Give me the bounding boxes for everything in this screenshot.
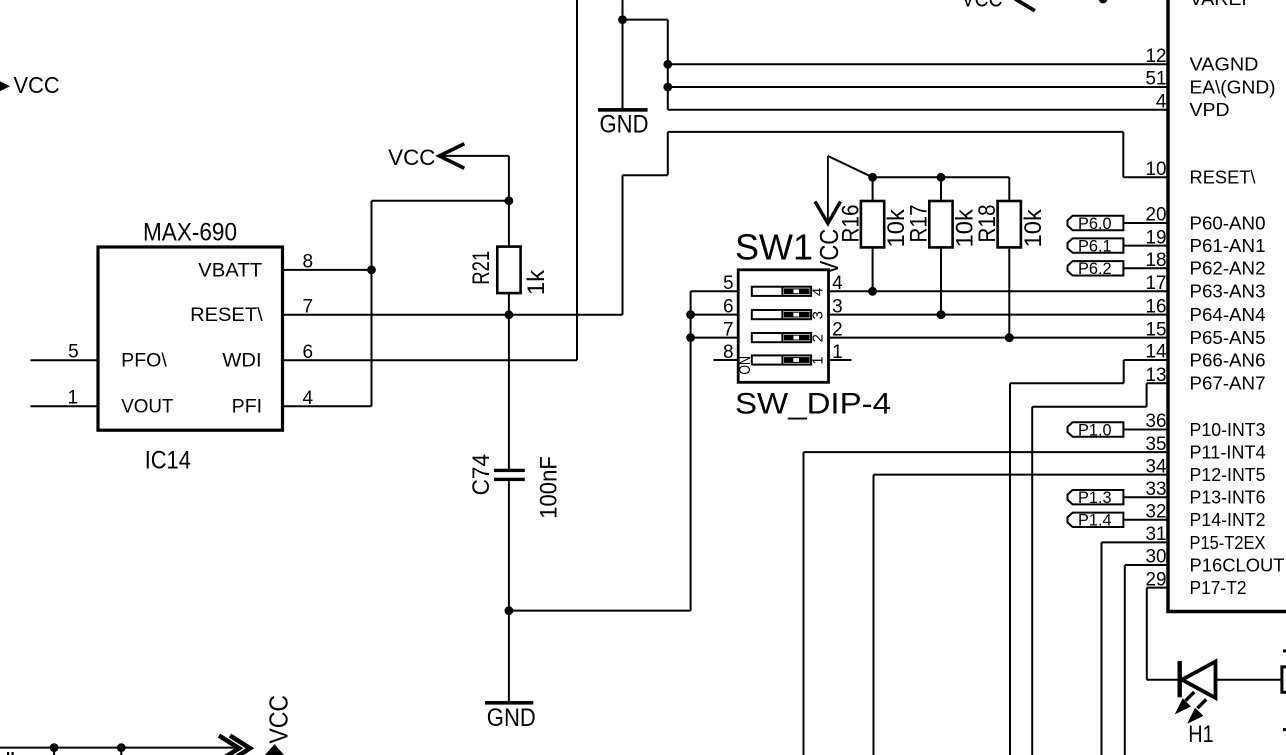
power symbol VCC (bottom, arrow up) [265, 744, 285, 755]
svg-text:P17-T2: P17-T2 [1190, 577, 1247, 598]
wire VCC rail over resistors [873, 176, 1010, 178]
svg-text:PFO\: PFO\ [121, 351, 167, 372]
wire R18 top lead [1008, 177, 1010, 201]
wire SW1 pin4 row to IC pin17 [829, 290, 1169, 292]
wire RESET into pin 10 [1123, 176, 1168, 178]
op-amp/IC U-block IC14 MAX-690 body [98, 247, 283, 430]
switch SW1 element 4 [752, 287, 811, 296]
wire pin34 vertical down [873, 475, 875, 755]
junction VAGND [663, 60, 672, 69]
junction R16 bottom [868, 287, 877, 296]
svg-text:VCC: VCC [263, 695, 293, 744]
svg-text:VCC: VCC [388, 145, 435, 170]
LED H1 cathode bar [1177, 661, 1181, 697]
svg-text:P64-AN4: P64-AN4 [1190, 304, 1266, 325]
svg-text:VCC: VCC [14, 72, 60, 98]
svg-text:RESET\: RESET\ [1190, 167, 1257, 188]
wire SW1 pin7 stub [691, 337, 739, 339]
wire C74 bottom lead [508, 481, 510, 610]
wire VCC top arrow arm (cut) [1015, 0, 1035, 11]
resistor R18 body [998, 201, 1021, 247]
wire IC14 pin7 RESET\ to node [283, 314, 623, 316]
switch SW1 body [738, 270, 828, 383]
junction EA\(GND) [663, 83, 672, 92]
wire vertical PFI-VBATT-VCC [371, 201, 373, 406]
svg-text:2: 2 [810, 334, 827, 342]
svg-text:ON: ON [737, 356, 754, 375]
ground symbol GND (top) [598, 108, 648, 112]
wire R21 top lead [508, 201, 510, 247]
svg-text:P1.0: P1.0 [1078, 421, 1112, 439]
wire SW1 pin8 stub [714, 359, 739, 361]
junction top GND branch [618, 15, 627, 24]
net flag P6.2 [1068, 260, 1124, 278]
power symbol VCC (above R16) [815, 156, 841, 224]
wire stub at right edge (lower) [1283, 728, 1286, 731]
svg-text:R16: R16 [837, 204, 864, 242]
wire IC14 pin1 VOUT [30, 405, 98, 407]
resistor R17 body [929, 201, 952, 247]
svg-text:EA\(GND): EA\(GND) [1190, 76, 1276, 97]
resistor R16 body [861, 201, 884, 247]
net flag P1.0 [1068, 421, 1124, 439]
svg-text:GND: GND [487, 704, 536, 732]
svg-text:P6.0: P6.0 [1078, 215, 1112, 233]
wire pin34 horizontal [874, 474, 1169, 476]
svg-text:100nF: 100nF [536, 456, 563, 519]
wire R21 bottom lead [508, 293, 510, 315]
wire R16 top lead [872, 177, 874, 201]
wire VCC arrow to corner [439, 155, 509, 157]
junction R18 bottom [1005, 333, 1014, 342]
wire WDI vertical riser [576, 0, 578, 360]
svg-text:SW1: SW1 [735, 227, 813, 268]
wire P6.1 flag to IC [1123, 245, 1168, 247]
wire bottom bus B stub down [120, 748, 122, 755]
svg-text:SW_DIP-4: SW_DIP-4 [735, 387, 891, 420]
svg-text:VPD: VPD [1190, 99, 1230, 120]
svg-text:3: 3 [810, 311, 827, 319]
LED H1 emission arrow 1 [1176, 692, 1194, 713]
wire VPD to pin 4 [668, 109, 1168, 111]
wire P6.2 flag to IC [1123, 267, 1168, 269]
svg-text:MAX-690: MAX-690 [143, 219, 237, 247]
bus arrow chevron 2 [230, 736, 250, 755]
wire P1.4 flag to IC [1123, 519, 1168, 521]
power symbol VCC (arrow, above R21) [439, 144, 464, 169]
wire EA\(GND) to pin 51 [668, 86, 1168, 88]
wire SW1 pin2 row to IC pin15 [829, 337, 1169, 339]
junction row17 / R16 [868, 287, 877, 296]
switch SW1 element 2 [752, 333, 811, 342]
power symbol VCC (top-left arrow) [0, 81, 10, 91]
svg-text:H1: H1 [1188, 721, 1213, 748]
wire pin29 vertical to LED [1146, 588, 1148, 680]
ground symbol GND (below C74) [485, 701, 533, 705]
junction rail / R17 [937, 173, 946, 182]
wire P6.0 flag to IC [1123, 222, 1168, 224]
wire RESET drop to pin 10 [1122, 132, 1124, 177]
svg-text:P62-AN2: P62-AN2 [1190, 258, 1266, 279]
wire bottom bus [0, 747, 235, 749]
wire IC14 pin4 PFI [283, 405, 372, 407]
svg-text:1: 1 [810, 356, 827, 364]
wire SW1 pin3 row to IC pin16 [829, 314, 1169, 316]
wire pin31 stub [1102, 541, 1169, 543]
junction rail / R16 [868, 173, 877, 182]
wire P1.3 flag to IC [1123, 496, 1168, 498]
wire pin35 vertical down [803, 452, 805, 755]
wire pin14 horizontal [1010, 382, 1124, 384]
svg-text:P12-INT5: P12-INT5 [1190, 464, 1266, 485]
svg-text:51: 51 [1146, 69, 1167, 90]
svg-text:10: 10 [1146, 159, 1167, 180]
wire C74 junction to SW net [509, 610, 691, 612]
svg-text:WDI: WDI [222, 351, 261, 372]
component at right edge (partial) [1282, 667, 1286, 692]
junction VAREF/VCC (top edge) [1099, 0, 1108, 3]
wire VCC corner down to R21 node [508, 156, 510, 201]
svg-text:P10-INT3: P10-INT3 [1190, 419, 1266, 440]
junction R21 bottom / RESET net [505, 310, 514, 319]
wire SW1 pin5 stub [691, 290, 739, 292]
svg-text:15: 15 [1146, 319, 1167, 340]
wire pin35 horizontal [804, 451, 1169, 453]
svg-text:P13-INT6: P13-INT6 [1190, 487, 1266, 508]
switch SW1 element 1 [752, 355, 811, 364]
svg-text:P11-INT4: P11-INT4 [1190, 442, 1266, 463]
svg-text:VAREF: VAREF [1190, 0, 1254, 9]
svg-text:P1.3: P1.3 [1078, 489, 1112, 507]
resistor R21 body [497, 247, 520, 294]
net flag P6.1 [1068, 238, 1124, 256]
wire pin14 drop [1123, 360, 1125, 383]
wire top branch vertical [667, 20, 669, 110]
wire pin14 vertical down [1009, 383, 1011, 755]
wire pin30 stub [1125, 564, 1168, 566]
wire pin29 to LED cathode [1147, 679, 1178, 681]
junction R21 top / VCC [505, 196, 514, 205]
junction row15 / R18 [1005, 333, 1014, 342]
junction row16 / R17 [937, 310, 946, 319]
svg-text:R17: R17 [906, 204, 933, 242]
wire pin30 vertical down [1124, 565, 1126, 755]
net flag P6.0 [1068, 215, 1124, 233]
net flag P1.4 [1068, 512, 1124, 530]
svg-text:P14-INT2: P14-INT2 [1190, 509, 1266, 530]
IC U-block (right, partial) border [1168, 0, 1286, 612]
wire IC14 pin5 PFO\ [30, 359, 98, 361]
svg-text:C74: C74 [468, 454, 495, 495]
svg-text:R18: R18 [974, 204, 1001, 242]
wire pin31 vertical down [1101, 542, 1103, 755]
wire VAGND to pin 12 [668, 63, 1168, 65]
junction bottom bus B [117, 743, 126, 752]
svg-text:4: 4 [1156, 92, 1167, 113]
switch SW1 element 3 [752, 310, 811, 319]
wire pin13 vertical down [1031, 407, 1033, 755]
svg-text:IC14: IC14 [145, 446, 191, 474]
wire SW net vertical to C74 [690, 291, 692, 610]
svg-text:P67-AN7: P67-AN7 [1190, 373, 1266, 394]
capacitor C74 plates [494, 469, 525, 481]
wire top GND vertical [622, 0, 624, 108]
svg-text:10k: 10k [1020, 208, 1047, 247]
wire RESET jog horizontal [623, 174, 668, 176]
svg-text:P60-AN0: P60-AN0 [1190, 212, 1266, 233]
wire stub at right edge (upper) [1283, 649, 1286, 652]
LED H1 triangle [1182, 662, 1216, 698]
svg-text:VOUT: VOUT [121, 397, 174, 418]
wire RESET jog vertical [667, 132, 669, 175]
svg-text:P65-AN5: P65-AN5 [1190, 327, 1266, 348]
wire P1.0 flag to IC [1123, 429, 1168, 431]
net flag P1.3 [1068, 489, 1124, 507]
LED H1 emission arrow 2 [1189, 699, 1206, 722]
wire R16 bottom lead [872, 247, 874, 291]
junction C74 bottom [505, 606, 514, 615]
svg-text:P66-AN6: P66-AN6 [1190, 349, 1266, 370]
svg-text:PFI: PFI [232, 397, 262, 418]
wire IC14 pin6 WDI [283, 359, 577, 361]
svg-text:4: 4 [810, 288, 827, 296]
wire IC14 pin8 VBATT [283, 269, 372, 271]
svg-text:VAGND: VAGND [1190, 54, 1259, 75]
wire pin29 stub [1147, 587, 1168, 589]
svg-text:VBATT: VBATT [198, 260, 262, 281]
svg-text:VCC: VCC [962, 0, 1003, 11]
svg-text:GND: GND [600, 110, 649, 138]
partial text at bottom-left corner [7, 752, 14, 755]
wire R17 top lead [940, 177, 942, 201]
bus arrow chevron 1 [219, 736, 239, 755]
wire pin13 stub [1147, 382, 1168, 384]
junction SW1 pin7 [686, 333, 695, 342]
wire top GND branch horizontal [623, 19, 668, 21]
junction R17 bottom [937, 310, 946, 319]
svg-text:P6.1: P6.1 [1078, 238, 1112, 256]
wire SW1 pin6 stub [691, 314, 739, 316]
wire GND stem (below C74) [508, 611, 510, 702]
junction SW1 pin6 [686, 310, 695, 319]
wire pin13 horizontal [1032, 406, 1146, 408]
wire RESET long horizontal [668, 131, 1124, 133]
wire RESET vertical at x622 [622, 175, 624, 315]
wire VCC diagonal to rail [828, 156, 873, 177]
svg-text:1k: 1k [523, 269, 550, 295]
svg-text:P61-AN1: P61-AN1 [1190, 235, 1266, 256]
wire VCC horizontal to R21 top [372, 200, 509, 202]
svg-text:17: 17 [1146, 273, 1167, 294]
wire bottom bus A stub down [53, 748, 55, 755]
svg-text:P6.2: P6.2 [1078, 260, 1112, 278]
svg-text:12: 12 [1146, 46, 1167, 67]
svg-text:P15-T2EX: P15-T2EX [1190, 532, 1266, 553]
wire pin13 drop [1146, 383, 1148, 407]
junction bottom bus A [50, 743, 59, 752]
junction VBATT/PFI [367, 266, 376, 275]
wire SW1 pin1 stub [829, 359, 852, 361]
wire R18 bottom lead [1008, 247, 1010, 337]
wire C74 top lead [508, 315, 510, 469]
svg-text:P1.4: P1.4 [1078, 512, 1112, 530]
svg-text:P16CLOUT: P16CLOUT [1190, 554, 1285, 575]
wire pin14 stub [1124, 359, 1168, 361]
svg-text:P63-AN3: P63-AN3 [1190, 281, 1266, 302]
svg-text:RESET\: RESET\ [190, 305, 263, 326]
wire LED anode right [1216, 679, 1282, 681]
svg-text:16: 16 [1146, 296, 1167, 317]
svg-text:R21: R21 [468, 251, 495, 285]
wire R17 bottom lead [940, 247, 942, 314]
